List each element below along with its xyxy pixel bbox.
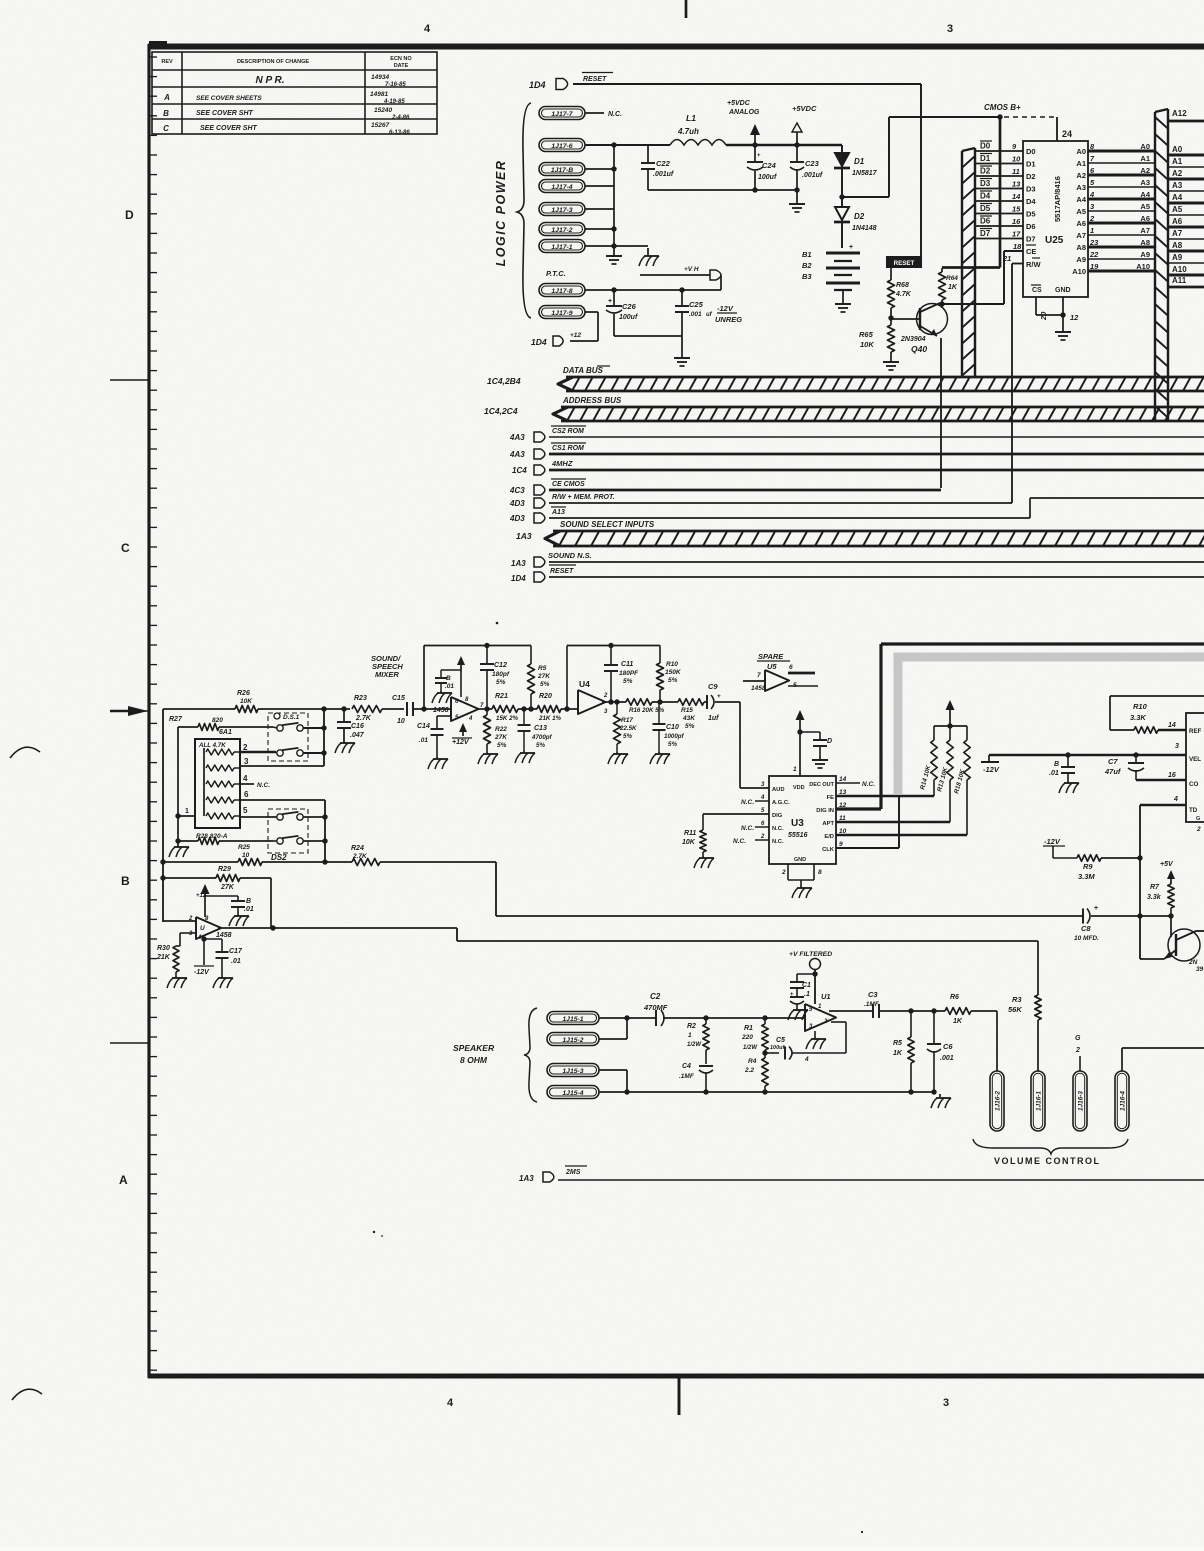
U25 address pins A0-A10 bbox=[1072, 142, 1155, 276]
capacitor D at U3 bbox=[800, 732, 832, 768]
svg-text:5%: 5% bbox=[497, 742, 507, 749]
svg-text:1J17-6: 1J17-6 bbox=[551, 143, 572, 150]
svg-text:5: 5 bbox=[243, 806, 248, 815]
label 1C4,2B4 bbox=[487, 376, 521, 386]
svg-text:5%: 5% bbox=[668, 741, 677, 748]
svg-text:14981: 14981 bbox=[370, 91, 388, 98]
svg-text:+: + bbox=[717, 693, 721, 700]
wire RW pin to bus bbox=[1012, 264, 1023, 504]
signal RESET bottom bbox=[511, 565, 1204, 583]
svg-text:R25: R25 bbox=[238, 844, 250, 851]
svg-text:3: 3 bbox=[947, 23, 953, 35]
svg-text:R17: R17 bbox=[621, 717, 633, 724]
opamp U5 1458 spare bbox=[751, 662, 797, 692]
resistor R15 bbox=[678, 699, 707, 730]
data bus trunk vertical bbox=[962, 148, 975, 377]
svg-text:C26: C26 bbox=[622, 302, 637, 311]
svg-text:2: 2 bbox=[603, 693, 608, 699]
svg-text:3.3k: 3.3k bbox=[1147, 894, 1162, 901]
svg-text:+: + bbox=[757, 153, 761, 159]
svg-text:2: 2 bbox=[823, 1019, 828, 1025]
wire CMOS B+ rail to R64 bbox=[942, 114, 1003, 267]
svg-text:4D3: 4D3 bbox=[509, 499, 525, 508]
svg-text:1J17-1: 1J17-1 bbox=[551, 244, 572, 251]
signal 4MHZ bbox=[512, 459, 1204, 475]
svg-text:SEE COVER SHT: SEE COVER SHT bbox=[200, 125, 258, 132]
resistor R16 bbox=[626, 699, 678, 714]
svg-text:10 MFD.: 10 MFD. bbox=[1074, 935, 1099, 942]
svg-text:+: + bbox=[790, 992, 794, 998]
svg-text:+12V: +12V bbox=[452, 739, 470, 746]
wire 1J17-B bbox=[585, 168, 614, 170]
svg-text:A3: A3 bbox=[1076, 183, 1086, 192]
wire RESET top run bbox=[573, 84, 921, 256]
svg-text:RESET: RESET bbox=[550, 568, 574, 575]
svg-text:B: B bbox=[246, 898, 251, 905]
connector 1J17-3 bbox=[539, 203, 585, 216]
svg-text:C22: C22 bbox=[656, 159, 671, 168]
svg-text:N P R.: N P R. bbox=[255, 75, 284, 86]
resistor R17 bbox=[608, 699, 637, 764]
RN1 pin 1 bbox=[178, 808, 195, 816]
pullup supply arrow bbox=[946, 700, 955, 726]
svg-text:REV: REV bbox=[161, 59, 173, 65]
svg-text:U: U bbox=[200, 925, 205, 932]
capacitor C3 bbox=[864, 990, 945, 1018]
svg-text:D1: D1 bbox=[980, 154, 991, 163]
label 6A1 bbox=[219, 729, 232, 736]
svg-text:18: 18 bbox=[1013, 242, 1022, 251]
rev table header bbox=[161, 56, 412, 69]
wire 1J17-3 bbox=[585, 208, 614, 210]
svg-text:11: 11 bbox=[1012, 167, 1020, 176]
connector 1J17-4 bbox=[539, 180, 585, 193]
svg-text:C8: C8 bbox=[1081, 924, 1091, 933]
svg-text:A5: A5 bbox=[1172, 205, 1183, 214]
svg-text:D6: D6 bbox=[1026, 222, 1036, 231]
svg-text:1J17-8: 1J17-8 bbox=[551, 288, 572, 295]
svg-text:R1: R1 bbox=[744, 1025, 753, 1032]
svg-text:N.C.: N.C. bbox=[741, 825, 754, 832]
svg-text:4.7uh: 4.7uh bbox=[677, 127, 699, 136]
node Q40 base bbox=[888, 308, 893, 321]
svg-text:22: 22 bbox=[1089, 250, 1099, 259]
svg-text:N.C.: N.C. bbox=[862, 781, 875, 788]
signal CS2 ROM bbox=[509, 426, 1204, 442]
svg-text:21: 21 bbox=[1002, 254, 1011, 263]
svg-text:R4: R4 bbox=[748, 1058, 757, 1065]
U25 bottom pins CS GND bbox=[1031, 285, 1079, 330]
svg-text:10K: 10K bbox=[860, 340, 874, 349]
svg-text:SOUND SELECT INPUTS: SOUND SELECT INPUTS bbox=[560, 520, 655, 529]
zone divider D/C bbox=[110, 379, 148, 381]
svg-text:+: + bbox=[608, 298, 612, 305]
svg-text:14934: 14934 bbox=[371, 74, 389, 81]
svg-text:39: 39 bbox=[1196, 966, 1204, 973]
svg-text:5%: 5% bbox=[623, 678, 633, 685]
RN1 pin 3 bbox=[240, 757, 324, 766]
border top line bbox=[148, 43, 1204, 49]
transistor Q40 bbox=[891, 303, 948, 354]
wire C9 to U3 bbox=[715, 702, 769, 788]
svg-text:C10: C10 bbox=[666, 724, 679, 731]
svg-text:2-4-86: 2-4-86 bbox=[391, 115, 410, 121]
svg-text:C23: C23 bbox=[805, 159, 820, 168]
label LOGIC POWER bbox=[494, 160, 508, 267]
svg-text:R22: R22 bbox=[495, 726, 507, 733]
svg-text:C: C bbox=[121, 541, 130, 555]
svg-text:22.5K: 22.5K bbox=[619, 725, 637, 732]
svg-text:R7: R7 bbox=[1150, 884, 1160, 891]
signal CE CMOS bbox=[509, 479, 941, 495]
connector 1J16-1 bbox=[1031, 1071, 1045, 1131]
svg-text:4: 4 bbox=[1089, 190, 1095, 199]
svg-text:A8: A8 bbox=[1076, 243, 1086, 252]
svg-text:SPARE: SPARE bbox=[758, 652, 784, 661]
svg-text:1N5817: 1N5817 bbox=[852, 170, 878, 177]
resistor R6 bbox=[945, 994, 997, 1071]
svg-text:A9: A9 bbox=[1172, 253, 1183, 262]
svg-text:+5V: +5V bbox=[1160, 861, 1174, 868]
svg-text:4700pf: 4700pf bbox=[531, 734, 553, 741]
svg-text:L1: L1 bbox=[686, 113, 696, 123]
svg-text:1D4: 1D4 bbox=[531, 337, 547, 347]
svg-text:TD: TD bbox=[1189, 807, 1198, 814]
capacitor C11 bbox=[604, 646, 639, 705]
svg-text:4: 4 bbox=[468, 716, 473, 722]
rev row A bbox=[163, 91, 405, 105]
resistor R5 1K bbox=[893, 1011, 914, 1092]
svg-text:1J16-3: 1J16-3 bbox=[1078, 1091, 1085, 1111]
svg-text:2N: 2N bbox=[1188, 959, 1198, 966]
svg-text:4: 4 bbox=[804, 1056, 809, 1063]
svg-text:2N3904: 2N3904 bbox=[900, 336, 926, 343]
svg-text:+12: +12 bbox=[570, 332, 581, 339]
svg-text:C1: C1 bbox=[802, 982, 811, 989]
svg-text:6A1: 6A1 bbox=[219, 729, 232, 736]
wire U3 FE line bbox=[836, 795, 934, 797]
wire U6 pin3 to R30 bbox=[176, 933, 196, 946]
svg-text:SEE COVER SHT: SEE COVER SHT bbox=[196, 110, 254, 117]
svg-text:5%: 5% bbox=[623, 733, 632, 740]
svg-text:6: 6 bbox=[789, 664, 793, 671]
svg-text:R10: R10 bbox=[666, 661, 678, 668]
resistor R29 feedback bbox=[163, 866, 271, 928]
svg-text:C9: C9 bbox=[708, 682, 718, 691]
svg-text:R6: R6 bbox=[950, 994, 959, 1001]
svg-text:6-13-86: 6-13-86 bbox=[389, 130, 410, 136]
connector 1J16-3 bbox=[1073, 1071, 1087, 1131]
svg-text:8 OHM: 8 OHM bbox=[460, 1055, 488, 1065]
border tick marks bbox=[151, 57, 158, 1370]
svg-text:R10: R10 bbox=[1133, 702, 1148, 711]
label +V H bbox=[684, 266, 699, 273]
svg-text:A8: A8 bbox=[1172, 241, 1183, 250]
wire U3 pin5 to R11 bbox=[703, 813, 769, 815]
svg-text:1C4: 1C4 bbox=[512, 466, 527, 475]
svg-text:C17: C17 bbox=[229, 948, 243, 955]
svg-text:DS2: DS2 bbox=[271, 853, 287, 862]
svg-text:CMOS B+: CMOS B+ bbox=[984, 103, 1021, 112]
svg-text:R26: R26 bbox=[237, 690, 250, 697]
wire 1J15-2 bbox=[599, 1018, 627, 1039]
DS2 switch a bbox=[276, 812, 328, 820]
svg-text:A3: A3 bbox=[1140, 178, 1150, 187]
opamp U4 bbox=[578, 679, 608, 715]
svg-text:2: 2 bbox=[1089, 214, 1095, 223]
label SOUND SPEECH MIXER bbox=[371, 654, 403, 679]
svg-text:C16: C16 bbox=[351, 723, 364, 730]
svg-text:A1: A1 bbox=[1140, 154, 1150, 163]
svg-text:D0: D0 bbox=[1026, 147, 1036, 156]
svg-text:D2: D2 bbox=[1026, 172, 1036, 181]
U3 VDD pin bbox=[793, 722, 805, 791]
svg-text:21K: 21K bbox=[156, 954, 171, 961]
svg-text:R21: R21 bbox=[495, 693, 508, 700]
capacitor C16 bbox=[335, 709, 365, 753]
RAM U25 body bbox=[1023, 141, 1088, 297]
wire 1J16-4 out bbox=[1122, 1048, 1204, 1071]
svg-text:D2: D2 bbox=[854, 212, 865, 221]
svg-text:A2: A2 bbox=[1140, 166, 1150, 175]
svg-text:R/W + MEM. PROT.: R/W + MEM. PROT. bbox=[552, 494, 615, 501]
svg-text:100uf: 100uf bbox=[619, 314, 638, 321]
svg-text:1C4,2C4: 1C4,2C4 bbox=[484, 406, 518, 416]
svg-text:2: 2 bbox=[760, 834, 765, 840]
wire opamp in- rail bbox=[163, 920, 196, 922]
resistor R2 bbox=[687, 1018, 709, 1064]
svg-text:SPEAKER: SPEAKER bbox=[453, 1043, 495, 1053]
svg-text:2: 2 bbox=[243, 743, 248, 752]
svg-text:55516: 55516 bbox=[788, 832, 808, 839]
svg-text:1K: 1K bbox=[953, 1018, 963, 1025]
svg-text:CS2 ROM: CS2 ROM bbox=[552, 428, 584, 435]
resistor R7 bbox=[1147, 884, 1174, 916]
svg-text:A7: A7 bbox=[1076, 231, 1086, 240]
svg-text:1J16-4: 1J16-4 bbox=[1120, 1091, 1127, 1111]
svg-text:D1: D1 bbox=[854, 157, 865, 166]
svg-text:1K: 1K bbox=[893, 1050, 903, 1057]
svg-text:D2: D2 bbox=[980, 167, 991, 176]
svg-text:2: 2 bbox=[1196, 826, 1201, 833]
svg-text:+V H: +V H bbox=[684, 266, 699, 273]
label N.C. 1J17-7 bbox=[608, 111, 622, 118]
power +5VDC bbox=[792, 104, 817, 145]
svg-text:10: 10 bbox=[397, 718, 405, 725]
svg-text:A6: A6 bbox=[1076, 219, 1086, 228]
svg-text:DATE: DATE bbox=[394, 63, 409, 69]
svg-text:R68: R68 bbox=[896, 282, 909, 289]
zone divider B/A bbox=[110, 1042, 148, 1044]
svg-text:1J17-3: 1J17-3 bbox=[551, 207, 572, 214]
capacitor C5 bbox=[765, 1037, 846, 1063]
connector 1J17-6 bbox=[539, 139, 585, 152]
svg-text:19: 19 bbox=[1090, 262, 1099, 271]
svg-text:A0: A0 bbox=[1172, 145, 1183, 154]
svg-text:1J16-2: 1J16-2 bbox=[995, 1091, 1002, 1111]
svg-text:R5: R5 bbox=[538, 665, 547, 672]
dashed CMOS B+ to pin24 bbox=[1004, 116, 1057, 118]
svg-text:R9: R9 bbox=[1083, 862, 1093, 871]
signal SOUND N.S. bbox=[511, 551, 1204, 568]
signal R/W + MEM PROT bbox=[509, 494, 1012, 508]
rev row NPR bbox=[255, 74, 406, 88]
DS1 switch a bbox=[273, 723, 327, 731]
column label 4 bottom bbox=[447, 1397, 454, 1409]
svg-text:R27: R27 bbox=[169, 716, 183, 723]
svg-text:27K: 27K bbox=[220, 884, 235, 891]
svg-text:15K 2%: 15K 2% bbox=[496, 715, 519, 722]
gray highlight trace bbox=[898, 657, 1204, 795]
svg-text:220: 220 bbox=[741, 1034, 753, 1041]
svg-text:+5VDC: +5VDC bbox=[727, 100, 751, 107]
svg-text:C25: C25 bbox=[689, 300, 704, 309]
svg-text:RESET: RESET bbox=[583, 76, 607, 83]
svg-text:D: D bbox=[827, 738, 832, 745]
capacitor C13 bbox=[515, 706, 553, 763]
border bottom line bbox=[148, 1374, 1204, 1379]
svg-text:N.C.: N.C. bbox=[741, 799, 754, 806]
border left line bbox=[147, 44, 150, 1378]
capacitor C2 bbox=[643, 992, 805, 1026]
wire 1J17-8 row bbox=[585, 287, 721, 292]
connector 1J15-2 bbox=[547, 1033, 599, 1046]
svg-text:R20: R20 bbox=[539, 693, 552, 700]
resistor network RN1 box bbox=[195, 739, 240, 828]
address lines to right edge bbox=[1168, 145, 1204, 287]
svg-text:A7: A7 bbox=[1172, 229, 1183, 238]
svg-text:G: G bbox=[1196, 816, 1200, 822]
svg-text:1A3: 1A3 bbox=[519, 1174, 534, 1183]
svg-text:U3: U3 bbox=[791, 818, 804, 829]
svg-text:uf: uf bbox=[706, 312, 713, 318]
connector 1J17-1 bbox=[539, 240, 585, 253]
svg-text:1J15-2: 1J15-2 bbox=[562, 1037, 583, 1044]
connector 1J17-2 bbox=[539, 223, 585, 236]
thick wire DIG IN bbox=[836, 644, 1204, 809]
svg-text:C6: C6 bbox=[943, 1042, 953, 1051]
svg-text:-12V: -12V bbox=[983, 765, 1000, 774]
svg-text:820: 820 bbox=[212, 717, 223, 724]
svg-text:5%: 5% bbox=[540, 681, 550, 688]
label -12V first bbox=[981, 755, 1000, 774]
svg-text:D1: D1 bbox=[1026, 160, 1036, 169]
svg-text:A9: A9 bbox=[1076, 255, 1086, 264]
resistor R10 3.3K loop bbox=[1110, 696, 1204, 733]
resistor R27 820 bbox=[169, 716, 273, 731]
svg-text:B2: B2 bbox=[802, 261, 812, 270]
svg-text:1N4148: 1N4148 bbox=[852, 225, 877, 232]
svg-text:16: 16 bbox=[1168, 772, 1176, 779]
svg-text:1J15-4: 1J15-4 bbox=[562, 1090, 583, 1097]
wire U6 output bbox=[218, 925, 457, 930]
svg-text:N.C.: N.C. bbox=[733, 838, 746, 845]
ground under C26 bbox=[674, 336, 690, 366]
svg-text:CO: CO bbox=[1189, 781, 1198, 788]
svg-text:4D3: 4D3 bbox=[509, 514, 525, 523]
U3 left pin labels bbox=[772, 787, 790, 845]
capacitor C8 bbox=[1074, 905, 1099, 942]
label VOLUME CONTROL bbox=[994, 1156, 1101, 1166]
capacitor C1 bbox=[788, 974, 815, 1020]
svg-text:1: 1 bbox=[1090, 226, 1094, 235]
svg-text:3: 3 bbox=[244, 757, 249, 766]
svg-text:N.C.: N.C. bbox=[772, 839, 784, 845]
svg-text:E/D: E/D bbox=[824, 834, 834, 840]
wire 1J15-3 bbox=[599, 1070, 630, 1095]
svg-text:A5: A5 bbox=[1140, 202, 1150, 211]
U3 pin14 NC bbox=[836, 781, 875, 788]
resistor R11 bbox=[682, 814, 714, 868]
branch to rake ground bbox=[614, 246, 659, 266]
resistor R21 bbox=[492, 693, 519, 722]
margin curve mark lower bbox=[12, 1389, 42, 1400]
column label 4 top bbox=[424, 23, 431, 35]
U3 designator bbox=[788, 818, 808, 839]
svg-text:R30: R30 bbox=[157, 945, 170, 952]
DS1 output column bbox=[323, 709, 325, 766]
svg-text:4.7K: 4.7K bbox=[895, 291, 912, 298]
svg-text:A.G.C.: A.G.C. bbox=[772, 800, 790, 806]
wire 1J17-6 to L1 bbox=[585, 144, 670, 146]
svg-text:APT: APT bbox=[822, 821, 834, 827]
svg-text:DIG IN: DIG IN bbox=[816, 808, 834, 814]
svg-text:C24: C24 bbox=[762, 161, 777, 170]
svg-text:1uf: 1uf bbox=[708, 715, 719, 722]
label G 2 stub bbox=[1075, 1035, 1081, 1071]
svg-text:A5: A5 bbox=[1076, 207, 1086, 216]
svg-text:3.3M: 3.3M bbox=[1078, 872, 1095, 881]
inductor L1 bbox=[670, 113, 726, 145]
svg-text:56K: 56K bbox=[1008, 1005, 1022, 1014]
U3 pin6 NC bbox=[741, 825, 769, 832]
svg-text:3: 3 bbox=[943, 1397, 949, 1409]
svg-text:+: + bbox=[849, 244, 853, 251]
capacitor C7 bbox=[1104, 755, 1186, 780]
feedback rail U4 bbox=[567, 643, 660, 709]
left rail bbox=[160, 709, 165, 922]
svg-text:14: 14 bbox=[1168, 722, 1176, 729]
svg-text:ADDRESS BUS: ADDRESS BUS bbox=[562, 396, 622, 405]
diode D2 bbox=[834, 197, 877, 248]
svg-text:15267: 15267 bbox=[371, 122, 389, 129]
svg-text:.001uf: .001uf bbox=[802, 172, 823, 179]
resistor R30 bbox=[156, 945, 187, 988]
svg-text:D0: D0 bbox=[980, 142, 991, 151]
svg-text:6: 6 bbox=[244, 790, 249, 799]
svg-text:+V FILTERED: +V FILTERED bbox=[789, 951, 832, 958]
capacitor B .01 right bbox=[1049, 755, 1079, 793]
svg-text:5%: 5% bbox=[496, 679, 506, 686]
svg-text:REF: REF bbox=[1189, 728, 1202, 735]
svg-text:D3: D3 bbox=[1026, 185, 1036, 194]
svg-text:MIXER: MIXER bbox=[375, 670, 399, 679]
junction column x614 bbox=[611, 142, 616, 248]
svg-text:1J15-1: 1J15-1 bbox=[562, 1016, 583, 1023]
svg-text:-12V: -12V bbox=[194, 969, 210, 976]
svg-text:Q40: Q40 bbox=[911, 344, 927, 354]
svg-text:1J16-1: 1J16-1 bbox=[1036, 1091, 1043, 1111]
svg-text:1/2W: 1/2W bbox=[743, 1045, 758, 1051]
label DATA BUS bbox=[563, 366, 610, 375]
svg-text:A2: A2 bbox=[1076, 171, 1086, 180]
resistor R4 bbox=[744, 1050, 768, 1092]
U6 +12V arrow bbox=[196, 884, 210, 917]
svg-text:4: 4 bbox=[1173, 796, 1178, 803]
resistor R28 bbox=[178, 838, 273, 845]
svg-text:2.2: 2.2 bbox=[744, 1067, 754, 1074]
svg-text:27K: 27K bbox=[537, 673, 551, 680]
